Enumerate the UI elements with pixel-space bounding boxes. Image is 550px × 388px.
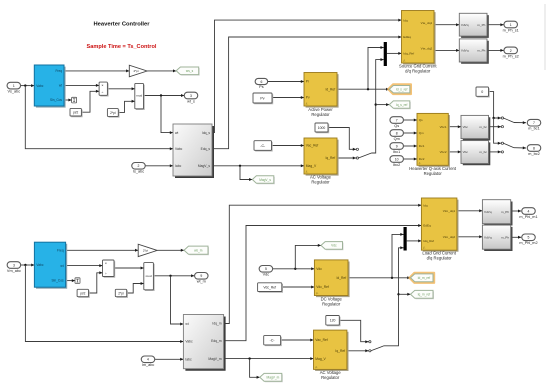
svg-text:Vs_abc: Vs_abc	[7, 90, 20, 94]
svg-text:MagV_m: MagV_m	[208, 357, 221, 361]
svg-text:Idq: Idq	[403, 18, 408, 22]
svg-text:EdEq: EdEq	[423, 224, 431, 228]
svg-text:2: 2	[138, 164, 140, 168]
svg-text:wt: wt	[60, 264, 63, 268]
svg-text:Vabc: Vabc	[36, 263, 43, 267]
svg-text:m_bc1: m_bc1	[528, 127, 539, 131]
svg-text:m_Phi_m2: m_Phi_m2	[519, 241, 537, 245]
svg-text:7: 7	[396, 118, 398, 122]
svg-text:wt: wt	[59, 84, 62, 88]
svg-text:mod: mod	[146, 274, 152, 278]
svg-text:pi/2: pi/2	[80, 291, 85, 295]
svg-text:Mag_V: Mag_V	[306, 164, 317, 168]
svg-text:Idq_Ref: Idq_Ref	[423, 239, 434, 243]
svg-text:⍼: ⍼	[403, 59, 406, 63]
svg-text:ws_s: ws_s	[186, 69, 194, 73]
svg-text:pi/2: pi/2	[73, 111, 78, 115]
svg-text:2*pi: 2*pi	[133, 69, 139, 73]
svg-text:Vabc: Vabc	[36, 84, 43, 88]
svg-text:Qs: Qs	[394, 124, 399, 128]
svg-text:6: 6	[260, 80, 262, 84]
svg-text:Vbc: Vbc	[463, 125, 469, 129]
svg-text:m_Ph_s2: m_Ph_s2	[503, 54, 519, 58]
svg-text:EdEq: EdEq	[403, 35, 411, 39]
svg-text:wt: wt	[175, 131, 178, 135]
svg-text:⍼: ⍼	[306, 102, 309, 106]
svg-text:×: ×	[102, 83, 104, 87]
svg-text:Vac_Ref: Vac_Ref	[315, 338, 327, 342]
svg-text:9: 9	[200, 274, 202, 278]
svg-text:wt_m: wt_m	[197, 280, 206, 284]
svg-text:⍼: ⍼	[316, 291, 319, 295]
svg-text:Iabc: Iabc	[185, 358, 192, 362]
svg-text:d/q Regulator: d/q Regulator	[427, 256, 453, 261]
svg-text:Edq_s: Edq_s	[201, 147, 211, 151]
svg-text:VdVq: VdVq	[484, 235, 492, 239]
svg-text:1000: 1000	[318, 126, 326, 130]
svg-text:⍼: ⍼	[419, 161, 422, 165]
svg-text:Vabc: Vabc	[175, 147, 183, 151]
svg-text:m_bc2: m_bc2	[528, 152, 539, 156]
svg-text:MagV_m: MagV_m	[267, 376, 280, 380]
svg-text:-C-: -C-	[260, 144, 266, 148]
svg-text:Vte_dq2: Vte_dq2	[421, 47, 433, 51]
svg-text:m_Ph: m_Ph	[477, 23, 485, 27]
svg-text:8: 8	[396, 131, 398, 135]
svg-text:Qs: Qs	[419, 118, 423, 122]
svg-text:8: 8	[533, 146, 535, 150]
svg-text:Ibc2: Ibc2	[393, 163, 400, 167]
svg-text:Vtm_dq1: Vtm_dq1	[443, 209, 456, 213]
svg-text:VdVq: VdVq	[484, 210, 492, 214]
svg-text:Regulator: Regulator	[311, 180, 330, 185]
svg-text:MagV_s: MagV_s	[198, 164, 210, 168]
svg-text:Pv: Pv	[306, 96, 310, 100]
svg-text:1: 1	[510, 23, 512, 27]
svg-text:Vm_abc: Vm_abc	[7, 269, 21, 273]
svg-text:Vdc_Ref: Vdc_Ref	[263, 285, 276, 289]
svg-text:Iq_m_ref: Iq_m_ref	[418, 293, 431, 297]
svg-text:0: 0	[481, 90, 483, 94]
svg-text:wt: wt	[185, 322, 188, 326]
svg-text:÷: ÷	[105, 272, 107, 276]
svg-text:Idq_Ref: Idq_Ref	[403, 52, 414, 56]
svg-text:m_bc: m_bc	[479, 125, 487, 129]
svg-text:Vtm_dq2: Vtm_dq2	[443, 235, 456, 239]
svg-text:⍼: ⍼	[315, 365, 318, 369]
svg-text:4: 4	[528, 209, 530, 213]
svg-text:Idq_s: Idq_s	[202, 131, 210, 135]
svg-text:Mag_V: Mag_V	[315, 357, 326, 361]
svg-text:Vbc: Vbc	[463, 150, 469, 154]
svg-text:Ibc1: Ibc1	[419, 144, 425, 148]
svg-text:Regulator: Regulator	[322, 302, 341, 307]
svg-text:Regulator: Regulator	[321, 375, 340, 380]
svg-text:Edq_m: Edq_m	[211, 339, 222, 343]
svg-text:Vte_dq1: Vte_dq1	[421, 21, 433, 25]
svg-text:VdVq: VdVq	[461, 23, 469, 27]
svg-text:m_Ph: m_Ph	[501, 235, 509, 239]
svg-text:Sin_Cos: Sin_Cos	[50, 98, 62, 102]
svg-text:Vdc: Vdc	[263, 273, 270, 277]
svg-text:2: 2	[510, 49, 512, 53]
svg-text:120: 120	[330, 319, 336, 323]
svg-text:ws_m: ws_m	[194, 249, 203, 253]
svg-text:Vbc2: Vbc2	[440, 150, 447, 154]
svg-text:Sin_Cos: Sin_Cos	[52, 279, 64, 283]
svg-text:÷: ÷	[102, 91, 104, 95]
svg-text:Qm: Qm	[394, 137, 400, 141]
svg-text:Iq_s_ref: Iq_s_ref	[396, 103, 408, 107]
svg-text:m_Ph: m_Ph	[501, 210, 509, 214]
svg-text:2*pi: 2*pi	[143, 249, 149, 253]
svg-text:wt_s: wt_s	[187, 99, 195, 103]
svg-text:Regulator: Regulator	[424, 171, 443, 176]
svg-text:Idq_m: Idq_m	[212, 322, 221, 326]
svg-text:Pv: Pv	[260, 96, 264, 100]
svg-text:1: 1	[13, 84, 15, 88]
svg-text:Vac_Ref: Vac_Ref	[306, 144, 318, 148]
svg-text:⍼: ⍼	[423, 246, 426, 250]
svg-text:m_Ph_s1: m_Ph_s1	[503, 28, 519, 32]
svg-text:Heaverter Controller: Heaverter Controller	[93, 22, 150, 28]
svg-text:Qm: Qm	[419, 131, 424, 135]
svg-text:3: 3	[13, 263, 15, 267]
svg-text:2*pi: 2*pi	[118, 291, 124, 295]
svg-text:Vabc: Vabc	[185, 340, 193, 344]
svg-text:Id_m_ref: Id_m_ref	[418, 276, 431, 280]
svg-text:10: 10	[395, 157, 399, 161]
svg-text:Vdc: Vdc	[316, 267, 322, 271]
svg-text:Vdc: Vdc	[331, 244, 337, 248]
svg-text:-C-: -C-	[270, 339, 276, 343]
svg-text:Ibc1: Ibc1	[393, 150, 400, 154]
svg-text:Id_Ref: Id_Ref	[336, 276, 346, 280]
svg-text:Regulator: Regulator	[311, 112, 330, 117]
svg-text:3: 3	[190, 94, 192, 98]
svg-text:5: 5	[528, 236, 530, 240]
svg-text:m_bc: m_bc	[479, 150, 487, 154]
svg-text:Freq: Freq	[55, 69, 62, 73]
svg-text:Is_abc: Is_abc	[133, 170, 144, 174]
svg-text:m_Ph: m_Ph	[477, 49, 485, 53]
svg-text:d/q Regulator: d/q Regulator	[405, 69, 431, 74]
svg-text:Vbc1: Vbc1	[440, 125, 447, 129]
svg-text:Freq: Freq	[57, 249, 64, 253]
svg-text:VdVq: VdVq	[461, 49, 469, 53]
svg-text:Id_Ref: Id_Ref	[325, 87, 335, 91]
svg-text:Im_abc: Im_abc	[142, 363, 155, 367]
svg-text:Ps: Ps	[259, 85, 264, 89]
svg-text:7: 7	[533, 121, 535, 125]
svg-text:Idq: Idq	[423, 203, 428, 207]
svg-text:MagV_s: MagV_s	[259, 178, 271, 182]
svg-text:Sample Time = Ts_Control: Sample Time = Ts_Control	[87, 44, 157, 50]
svg-text:mod: mod	[136, 94, 142, 98]
svg-text:⍼: ⍼	[306, 170, 309, 174]
svg-text:4: 4	[147, 358, 149, 362]
svg-text:Id_s_ref: Id_s_ref	[396, 88, 408, 92]
svg-text:9: 9	[396, 144, 398, 148]
svg-text:m_Phi_m1: m_Phi_m1	[519, 215, 537, 219]
svg-text:×: ×	[105, 261, 107, 265]
svg-text:Iq_Ref: Iq_Ref	[335, 349, 345, 353]
svg-text:Iabc: Iabc	[175, 164, 182, 168]
svg-text:Iq_Ref: Iq_Ref	[325, 156, 335, 160]
svg-text:5: 5	[265, 267, 267, 271]
svg-text:2*pi: 2*pi	[110, 111, 116, 115]
svg-text:Vdc_Ref: Vdc_Ref	[316, 285, 329, 289]
